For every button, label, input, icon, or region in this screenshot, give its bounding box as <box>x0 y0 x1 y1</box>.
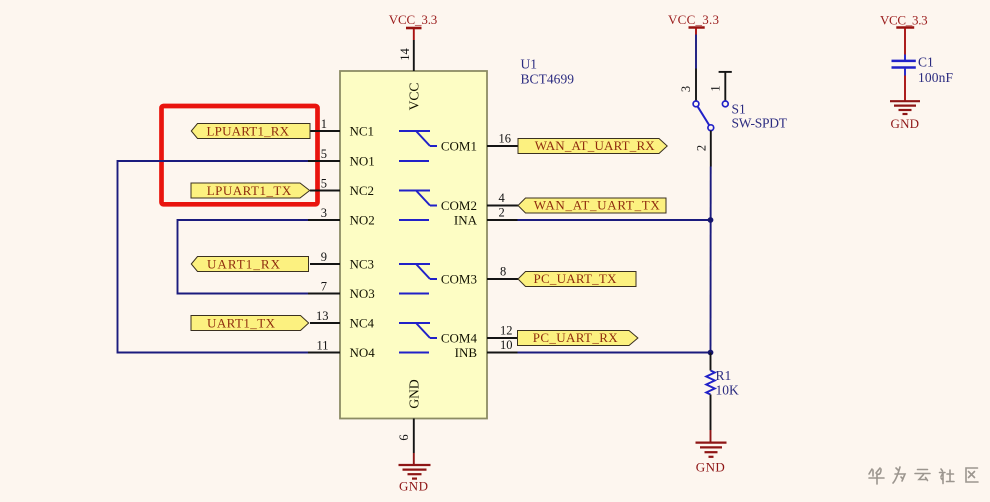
internal switch channel 4 <box>399 323 437 353</box>
svg-text:BCT4699: BCT4699 <box>521 72 575 87</box>
svg-text:GND: GND <box>891 116 920 131</box>
svg-text:2: 2 <box>695 145 709 151</box>
svg-text:5: 5 <box>321 177 327 191</box>
ground symbol below U1 <box>399 453 431 479</box>
svg-text:GND: GND <box>399 479 428 494</box>
switch S1 pin 2 line <box>710 131 712 167</box>
svg-text:COM3: COM3 <box>441 272 477 287</box>
wire INA to switch node <box>518 219 711 221</box>
svg-text:C1: C1 <box>918 55 934 70</box>
svg-text:11: 11 <box>316 339 328 353</box>
wire switch pin2 down to nodes <box>710 167 712 353</box>
flag PC_UART_TX <box>518 271 636 286</box>
resistor R1 <box>710 353 712 371</box>
svg-text:NO3: NO3 <box>350 286 375 301</box>
svg-text:3: 3 <box>679 86 693 92</box>
switch S1 pole contact circle (pin3) <box>693 101 699 107</box>
svg-text:R1: R1 <box>716 368 732 383</box>
svg-text:GND: GND <box>696 460 725 475</box>
svg-text:UART1_RX: UART1_RX <box>207 257 281 272</box>
pin 3 stub (NO2) <box>308 219 340 221</box>
pin 6 line (GND) <box>413 419 415 454</box>
pin 7 stub (NO3) <box>308 293 340 295</box>
svg-text:NO2: NO2 <box>350 213 375 228</box>
svg-text:COM1: COM1 <box>441 139 477 154</box>
svg-text:INB: INB <box>455 345 478 360</box>
pin 1 stub (NC1) <box>310 130 340 132</box>
svg-text:100nF: 100nF <box>918 70 953 85</box>
svg-text:NC4: NC4 <box>350 316 375 331</box>
node junction INA <box>708 217 714 223</box>
svg-text:NO1: NO1 <box>350 154 375 169</box>
node junction INB <box>708 350 714 356</box>
svg-text:10K: 10K <box>716 383 740 398</box>
svg-text:SW-SPDT: SW-SPDT <box>732 116 788 131</box>
wire NO2 to NO3 (left loop) <box>178 220 309 294</box>
svg-text:WAN_AT_UART_RX: WAN_AT_UART_RX <box>535 138 656 153</box>
VCC_3.3 power symbol above U1 <box>413 29 415 41</box>
pin 9 stub (NC3) <box>310 263 340 265</box>
watermark 华为云社区 <box>869 467 978 484</box>
svg-text:NO4: NO4 <box>350 345 376 360</box>
wire VCC to C1 <box>904 28 906 55</box>
pin 16 stub (COM1) <box>487 145 518 147</box>
svg-text:14: 14 <box>398 48 412 61</box>
flag WAN_AT_UART_RX <box>518 138 667 153</box>
svg-text:LPUART1_TX: LPUART1_TX <box>207 183 292 198</box>
svg-text:VCC: VCC <box>407 83 422 111</box>
pin 5 stub (NO1) <box>308 160 340 162</box>
svg-text:INA: INA <box>454 213 478 228</box>
pin 2 stub (INA) <box>487 219 518 221</box>
wire C1 to GND <box>904 76 906 101</box>
flag WAN_AT_UART_TX <box>518 198 666 213</box>
switch S1 pin 2 contact circle <box>708 125 714 131</box>
svg-text:4: 4 <box>499 191 506 205</box>
switch S1 blade (diagonal) <box>698 106 710 125</box>
svg-text:COM4: COM4 <box>441 331 478 346</box>
svg-text:COM2: COM2 <box>441 198 477 213</box>
ground symbol below R1 <box>696 430 727 457</box>
internal switch channel 1 <box>399 131 437 161</box>
ground symbol below C1 <box>890 101 920 114</box>
svg-text:1: 1 <box>709 85 723 91</box>
switch S1 pin 1 bar and line <box>719 71 732 73</box>
svg-text:PC_UART_TX: PC_UART_TX <box>534 271 618 286</box>
svg-text:GND: GND <box>407 379 422 408</box>
op-amp U1 body (BCT4699 analog switch) <box>340 71 487 419</box>
flag PC_UART_RX <box>518 330 638 345</box>
svg-text:VCC_3.3: VCC_3.3 <box>668 12 719 27</box>
svg-text:7: 7 <box>321 280 327 294</box>
pin 11 stub (NO4) <box>308 352 340 354</box>
pin 5 stub (NC2) <box>310 190 340 192</box>
switch S1 pin 3 line <box>695 69 697 102</box>
switch S1 throw contact circle (pin1) <box>722 101 728 107</box>
svg-text:NC1: NC1 <box>350 124 375 139</box>
svg-text:10: 10 <box>500 338 513 352</box>
pin 14 line (VCC) <box>413 40 415 71</box>
flag UART1_TX <box>191 316 309 331</box>
svg-text:WAN_AT_UART_TX: WAN_AT_UART_TX <box>534 198 661 213</box>
internal switch channel 2 <box>399 191 437 221</box>
svg-text:U1: U1 <box>521 57 538 72</box>
flag LPUART1_TX <box>191 183 310 198</box>
svg-text:LPUART1_RX: LPUART1_RX <box>207 124 290 139</box>
capacitor C1 <box>892 55 916 76</box>
wire NO1 to NO4 (left loop) <box>118 161 309 353</box>
svg-text:3: 3 <box>321 206 327 220</box>
svg-text:VCC_3.3: VCC_3.3 <box>880 13 928 28</box>
svg-text:16: 16 <box>499 132 512 146</box>
svg-text:VCC_3.3: VCC_3.3 <box>389 12 438 27</box>
svg-text:1: 1 <box>321 117 327 131</box>
svg-text:NC2: NC2 <box>350 183 375 198</box>
internal switch channel 3 <box>399 264 437 294</box>
wire INB to R1 node <box>518 352 711 354</box>
wire VCC to S1 pin 3 <box>695 35 697 69</box>
pin 8 stub (COM3) <box>487 278 518 280</box>
svg-text:2: 2 <box>499 206 505 220</box>
svg-text:PC_UART_RX: PC_UART_RX <box>533 330 619 345</box>
svg-text:8: 8 <box>500 265 506 279</box>
flag LPUART1_RX <box>191 124 310 139</box>
svg-text:9: 9 <box>321 250 327 264</box>
pin 12 stub (COM4) <box>487 337 518 339</box>
svg-text:S1: S1 <box>732 102 746 117</box>
svg-text:6: 6 <box>397 434 411 440</box>
svg-text:13: 13 <box>316 309 329 323</box>
pin 13 stub (NC4) <box>310 322 340 324</box>
pin 10 stub (INB) <box>487 352 518 354</box>
svg-text:5: 5 <box>321 147 327 161</box>
svg-text:NC3: NC3 <box>350 257 375 272</box>
pin 4 stub (COM2) <box>487 205 518 207</box>
svg-text:12: 12 <box>500 324 513 338</box>
svg-text:UART1_TX: UART1_TX <box>207 316 276 331</box>
flag UART1_RX <box>191 257 308 272</box>
red annotation box around LPUART flags <box>162 106 318 204</box>
